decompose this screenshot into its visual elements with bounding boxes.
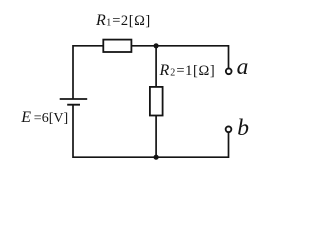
wire top-right segment	[132, 45, 229, 47]
svg-text:=6[V]: =6[V]	[34, 111, 68, 126]
svg-text:R: R	[95, 12, 106, 29]
svg-text:=1[Ω]: =1[Ω]	[176, 63, 215, 79]
wire bottom segment	[73, 156, 229, 158]
label R1 value	[95, 12, 151, 29]
wire terminal b to bottom	[228, 133, 230, 158]
wire top-left segment	[73, 45, 103, 47]
svg-text:1: 1	[106, 17, 111, 28]
svg-text:R: R	[159, 62, 170, 79]
terminal b circle	[226, 126, 232, 132]
wire left vertical lower	[72, 105, 74, 158]
terminal a circle	[226, 68, 232, 74]
wire right vertical to terminal a	[228, 45, 230, 68]
label R2 value	[159, 62, 216, 79]
svg-text:b: b	[237, 115, 249, 141]
battery E long plate	[60, 98, 87, 100]
svg-text:2: 2	[170, 68, 175, 79]
node bottom junction	[154, 155, 159, 160]
label E value	[20, 109, 68, 126]
wire R2 branch upper	[155, 46, 157, 87]
svg-text:=2[Ω]: =2[Ω]	[112, 13, 151, 29]
battery E short plate	[67, 104, 80, 106]
resistor R2	[150, 87, 163, 116]
resistor R1	[103, 40, 131, 52]
node top junction	[154, 43, 159, 48]
wire left vertical upper	[72, 45, 74, 99]
wire R2 branch lower	[155, 116, 157, 158]
svg-text:E: E	[20, 109, 31, 126]
svg-text:a: a	[237, 54, 249, 80]
